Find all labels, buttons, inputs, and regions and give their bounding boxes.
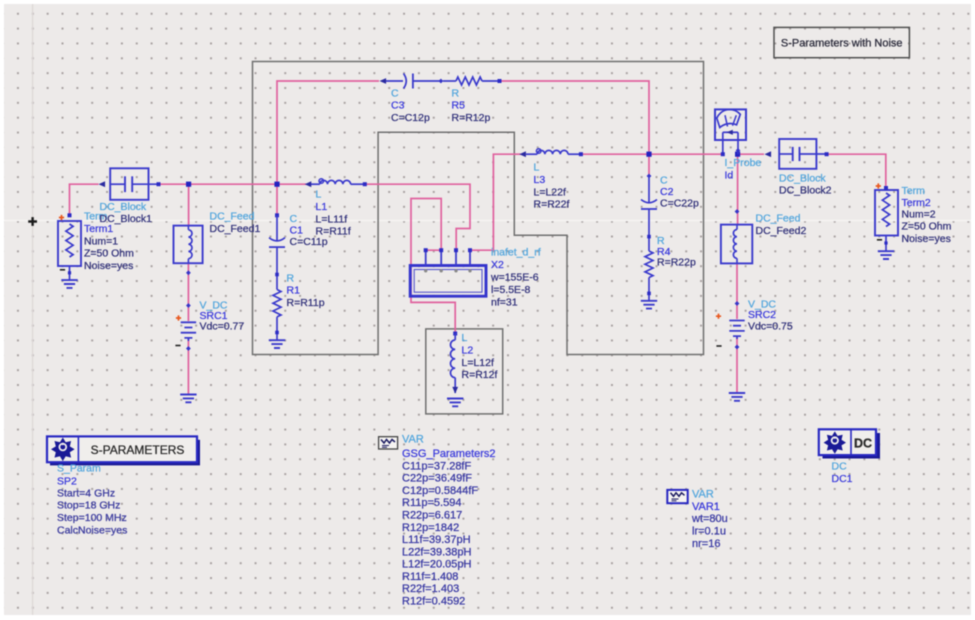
svg-text:S-Parameters with Noise: S-Parameters with Noise <box>781 37 903 49</box>
svg-text:nf=31: nf=31 <box>491 297 518 309</box>
ground under Term2 <box>878 251 894 259</box>
svg-text:R=R22p: R=R22p <box>657 256 696 268</box>
svg-text:L12f=20.05pH: L12f=20.05pH <box>402 559 471 571</box>
title box S-Parameters with Noise <box>774 27 909 57</box>
resistor R4 <box>645 251 653 301</box>
svg-text:DC1: DC1 <box>832 473 853 485</box>
svg-text:R=R12f: R=R12f <box>462 369 498 381</box>
svg-text:C: C <box>290 213 298 225</box>
svg-text:R=R11f: R=R11f <box>316 226 351 238</box>
svg-text:C: C <box>391 88 399 100</box>
svg-text:Step=100 MHz: Step=100 MHz <box>57 512 127 524</box>
X2 labels <box>490 247 541 309</box>
svg-text:R11f=1.408: R11f=1.408 <box>402 571 458 583</box>
dc source SRC2 <box>716 301 745 349</box>
svg-text:R=R12p: R=R12p <box>452 112 491 124</box>
svg-text:L: L <box>462 332 468 344</box>
wire L1 to FET gate <box>366 184 470 249</box>
R5 labels <box>452 88 491 124</box>
DC DC1 labels <box>832 461 853 485</box>
svg-text:C: C <box>660 175 668 187</box>
transistor X2 (inafet_d_rf) <box>410 248 486 296</box>
inductor L3 <box>519 149 583 157</box>
node at DC_Feed2 tap <box>735 152 740 157</box>
svg-text:DC_Block: DC_Block <box>779 173 826 185</box>
ground under SRC1 <box>180 395 196 403</box>
wire SRC1 to ground <box>187 339 189 395</box>
DC_Feed1 labels <box>210 211 261 235</box>
ground under R1 <box>269 340 285 348</box>
axis vertical line <box>32 4 34 615</box>
svg-text:I_Probe: I_Probe <box>725 157 762 169</box>
SRC1 labels <box>200 299 245 332</box>
current probe Id <box>715 109 746 156</box>
Term2 labels <box>902 185 952 245</box>
svg-text:R5: R5 <box>452 100 466 112</box>
svg-text:L: L <box>316 189 322 201</box>
C3 labels <box>391 88 430 124</box>
svg-text:Num=1: Num=1 <box>84 235 118 247</box>
svg-text:C11p=37.28fF: C11p=37.28fF <box>402 460 471 472</box>
svg-text:L: L <box>534 162 540 174</box>
wire feedback left riser <box>277 81 379 184</box>
svg-text:Vdc=0.75: Vdc=0.75 <box>748 320 793 332</box>
inductor L2 <box>451 332 459 394</box>
svg-text:DC_Feed1: DC_Feed1 <box>210 223 261 235</box>
svg-text:R12p=1842: R12p=1842 <box>402 522 459 534</box>
wire FET source loop <box>411 199 455 333</box>
VAR block GSG_Parameters2 icon <box>379 437 398 449</box>
svg-text:Noise=yes: Noise=yes <box>902 233 951 245</box>
svg-text:nr=16: nr=16 <box>692 538 720 550</box>
svg-text:DC_Feed: DC_Feed <box>756 213 801 225</box>
svg-text:VAR: VAR <box>402 433 424 445</box>
wire L3 to I_Probe <box>581 153 723 155</box>
Term1 labels <box>84 211 134 272</box>
svg-text:wt=80u: wt=80u <box>691 513 728 525</box>
svg-text:R: R <box>452 88 460 100</box>
svg-text:R11p=5.594: R11p=5.594 <box>402 497 461 509</box>
wire DC_Feed1 to SRC1 <box>187 263 189 321</box>
svg-text:w=155E-6: w=155E-6 <box>490 272 539 284</box>
svg-text:R22f=1.403: R22f=1.403 <box>402 583 459 595</box>
svg-text:CalcNoise=yes: CalcNoise=yes <box>57 524 127 536</box>
svg-text:Vdc=0.77: Vdc=0.77 <box>200 321 245 333</box>
svg-text:DC_Block: DC_Block <box>100 201 147 213</box>
svg-text:X2: X2 <box>491 259 504 271</box>
C2 labels <box>660 175 699 210</box>
term Term1 <box>58 213 81 280</box>
svg-text:R=R11p: R=R11p <box>287 297 325 309</box>
svg-text:VAR: VAR <box>692 489 714 501</box>
wire FET drain riser <box>470 154 521 250</box>
svg-text:DC_Feed: DC_Feed <box>210 211 255 223</box>
svg-text:Num=2: Num=2 <box>902 209 936 221</box>
R4 labels <box>657 235 696 268</box>
svg-text:R12f=0.4592: R12f=0.4592 <box>402 595 465 607</box>
capacitor DC_Block2 <box>765 139 829 169</box>
svg-text:L3: L3 <box>534 174 546 186</box>
inductor L1 <box>305 179 367 187</box>
svg-text:VAR1: VAR1 <box>692 501 720 513</box>
resistor R5 <box>443 77 502 85</box>
wire junction to C1 <box>276 184 278 214</box>
node at C2/feedback tap <box>646 152 651 157</box>
I_Probe labels <box>725 157 762 181</box>
svg-text:C2: C2 <box>660 186 674 198</box>
wire Term1 to input rail <box>70 184 99 216</box>
svg-text:Term: Term <box>902 185 926 197</box>
L2 network boundary box <box>426 329 503 414</box>
svg-text:DC_Block1: DC_Block1 <box>100 213 153 225</box>
wire SRC2 to ground <box>736 337 738 393</box>
node at DC_Feed1 tap <box>186 182 191 187</box>
svg-text:R1: R1 <box>287 285 301 297</box>
svg-text:GSG_Parameters2: GSG_Parameters2 <box>402 448 496 460</box>
inductor DC_Feed2 <box>721 209 752 263</box>
svg-text:R: R <box>287 272 295 284</box>
S-PARAMETERS simulation controller block <box>47 436 200 465</box>
svg-text:L2: L2 <box>462 345 474 357</box>
capacitor C1 <box>269 213 285 289</box>
svg-text:L=L12f: L=L12f <box>462 357 494 369</box>
ground under L2 <box>447 399 463 407</box>
svg-text:L1: L1 <box>316 201 328 213</box>
wire DC_Block2 to Term2 <box>827 154 886 188</box>
svg-text:C=C22p: C=C22p <box>660 198 699 210</box>
svg-text:C=C12p: C=C12p <box>391 112 430 124</box>
svg-text:inafet_d_rf: inafet_d_rf <box>491 247 541 259</box>
wire C2 branch from output rail <box>648 154 650 176</box>
DC_Feed2 labels <box>756 213 807 237</box>
dc source SRC1 <box>175 303 196 351</box>
wire junction to DC_Feed2 <box>737 154 739 224</box>
L2 labels <box>462 332 498 381</box>
L1 labels <box>316 189 351 238</box>
wire junction to DC_Feed1 <box>188 184 190 226</box>
svg-text:C1: C1 <box>290 225 304 237</box>
term Term2 <box>875 183 898 251</box>
svg-text:R=R22f: R=R22f <box>534 199 570 211</box>
svg-text:Z=50 Ohm: Z=50 Ohm <box>84 248 134 260</box>
svg-text:C=C11p: C=C11p <box>290 236 328 248</box>
svg-text:DC_Feed2: DC_Feed2 <box>756 225 807 237</box>
svg-text:DC_Block2: DC_Block2 <box>779 185 832 197</box>
wire DC_Feed2 to SRC2 <box>736 263 738 319</box>
svg-text:L11f=39.37pH: L11f=39.37pH <box>402 534 471 546</box>
R1 labels <box>287 272 325 309</box>
node at C1/feedback tap <box>274 182 279 187</box>
input/feedback network boundary box <box>253 62 704 355</box>
svg-text:C22p=36.49fF: C22p=36.49fF <box>402 473 472 485</box>
svg-text:Stop=18 GHz: Stop=18 GHz <box>57 500 120 512</box>
svg-text:DC: DC <box>854 436 872 450</box>
svg-text:L=L11f: L=L11f <box>316 213 348 225</box>
ground under SRC2 <box>729 393 745 401</box>
svg-text:L22f=39.38pH: L22f=39.38pH <box>402 546 471 558</box>
capacitor DC_Block1 <box>99 168 161 200</box>
S_Param SP2 labels <box>57 463 127 537</box>
capacitor C3 <box>380 74 444 89</box>
inductor DC_Feed1 <box>174 226 203 276</box>
axis horizontal line <box>4 220 971 222</box>
origin cross <box>28 217 37 226</box>
svg-text:Id: Id <box>725 170 734 182</box>
SRC2 labels <box>748 299 793 333</box>
svg-text:S-PARAMETERS: S-PARAMETERS <box>91 443 185 457</box>
svg-text:Noise=yes: Noise=yes <box>84 260 133 272</box>
DC_Block2 labels <box>779 173 832 197</box>
svg-text:C3: C3 <box>391 100 405 112</box>
svg-text:lr=0.1u: lr=0.1u <box>692 526 726 538</box>
svg-text:Term2: Term2 <box>902 197 931 209</box>
VAR1 labels <box>691 489 728 550</box>
C1 labels <box>290 213 328 248</box>
svg-text:S_Param: S_Param <box>57 463 101 475</box>
VAR block VAR1 icon <box>667 490 687 503</box>
L3 labels <box>534 162 570 211</box>
wire I_Probe to DC_Block2 <box>738 153 764 155</box>
wire DC_Block1 to L1 input rail <box>157 183 306 185</box>
svg-text:L=L22f: L=L22f <box>534 186 566 198</box>
resistor R1 <box>273 290 281 340</box>
svg-text:Start=4 GHz: Start=4 GHz <box>57 488 115 500</box>
svg-text:DC: DC <box>832 461 848 473</box>
svg-text:C12p=0.5844fF: C12p=0.5844fF <box>402 485 478 497</box>
svg-text:SP2: SP2 <box>57 475 77 487</box>
capacitor C2 <box>641 174 657 251</box>
wire feedback right to output rail <box>500 81 649 153</box>
VAR GSG_Parameters2 labels <box>402 433 496 607</box>
svg-text:l=5.5E-8: l=5.5E-8 <box>491 284 531 296</box>
ground under R4 <box>641 301 657 309</box>
svg-text:SRC2: SRC2 <box>748 309 776 321</box>
svg-text:Z=50 Ohm: Z=50 Ohm <box>902 221 952 233</box>
svg-text:R22p=6.617: R22p=6.617 <box>402 510 462 522</box>
DC simulation controller block <box>819 429 880 458</box>
ground under Term1 <box>61 280 77 288</box>
DC_Block1 labels <box>100 201 153 225</box>
